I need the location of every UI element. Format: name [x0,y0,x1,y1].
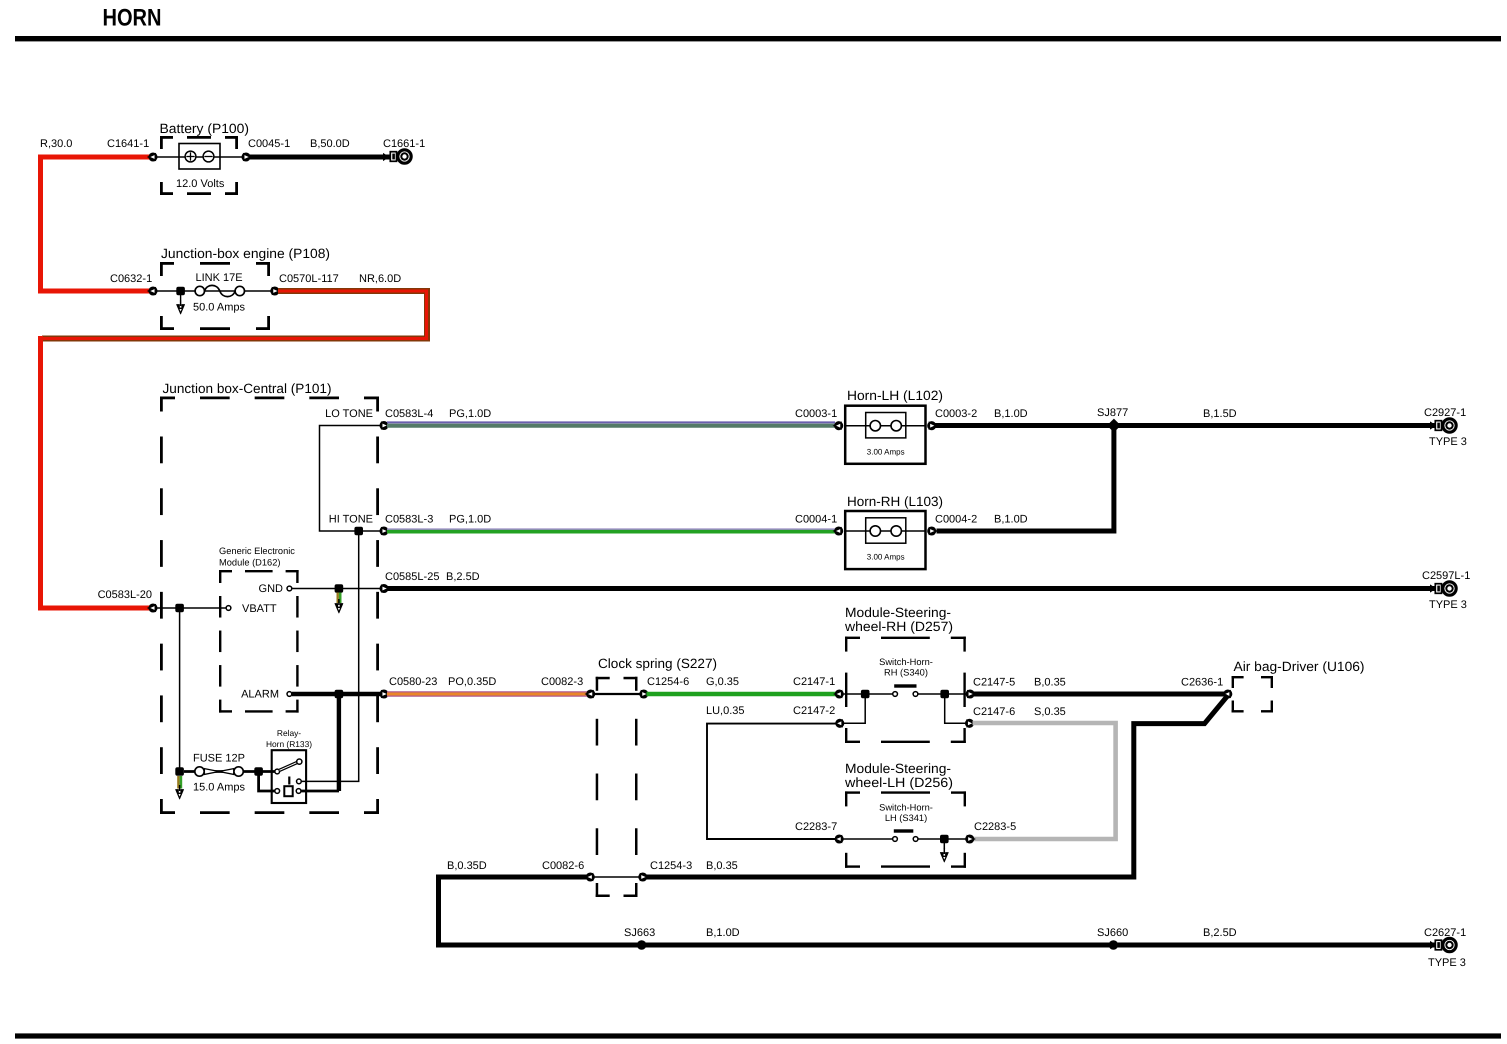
junction box-Central P101 dashed box [160,397,379,815]
svg-text:GND: GND [259,583,284,595]
battery P100 symbol [179,144,220,170]
connector C0632-1 [149,288,157,295]
svg-text:B,2.5D: B,2.5D [446,571,480,583]
junction dot VBATT [175,604,184,613]
connector C2283-5 [966,836,974,843]
splice SJ660 [1109,940,1119,950]
connector C2147-1 [835,691,843,698]
wire air bag return diagonal [1133,696,1228,878]
clock spring internal wire top [593,693,641,695]
junction box engine P108 dashed box [160,262,270,330]
svg-text:C0003-2: C0003-2 [935,408,977,420]
junction dot fuse feed [175,767,184,776]
connector C0583L-3 [381,528,389,535]
horn-LH L102 box [845,406,925,464]
wire S,0.35 grey [973,723,1116,839]
air bag-Driver U106 dashed box [1232,676,1273,713]
ALARM pin and wire [292,692,384,696]
connector C0583L-4 [381,422,389,429]
svg-text:C2597L-1: C2597L-1 [1422,570,1470,582]
connector C0583L-20 [149,605,157,612]
switch-horn-RH S340 symbol [893,684,918,696]
svg-text:C0045-1: C0045-1 [248,138,290,150]
svg-text:PG,1.0D: PG,1.0D [449,408,491,420]
svg-text:C2636-1: C2636-1 [1181,677,1223,689]
svg-text:Battery (P100): Battery (P100) [160,121,250,136]
svg-text:Relay-: Relay- [277,728,301,738]
D257 internal wires [842,693,893,695]
svg-text:C2147-6: C2147-6 [973,706,1015,718]
svg-text:R,30.0: R,30.0 [40,138,72,150]
svg-text:C0583L-20: C0583L-20 [98,589,152,601]
svg-text:Horn-LH (L102): Horn-LH (L102) [847,388,943,403]
svg-text:B,1.5D: B,1.5D [1203,408,1237,420]
svg-text:G,0.35: G,0.35 [706,676,739,688]
svg-text:B,0.35: B,0.35 [1034,677,1066,689]
svg-text:C0580-23: C0580-23 [389,676,437,688]
svg-text:C0585L-25: C0585L-25 [385,571,439,583]
horn-RH L103 box [845,511,925,569]
svg-text:C0570L-117: C0570L-117 [279,273,339,285]
junction dot HI TONE relay feed [354,527,363,536]
internal wire ALARM to relay coil [337,694,341,791]
module-steering-wheel-RH D257 dashed box [845,637,966,743]
connector C2147-6 [966,720,974,727]
connector C2283-7 [835,836,843,843]
connector C2636-1 [1223,691,1231,698]
junction dot ALARM [335,690,344,699]
D256 internal wires [842,838,893,840]
svg-text:C0082-3: C0082-3 [541,676,583,688]
junction dot GND [335,584,344,593]
svg-text:SJ663: SJ663 [624,927,655,939]
svg-text:Clock spring (S227): Clock spring (S227) [598,656,717,671]
svg-text:C1641-1: C1641-1 [107,138,149,150]
wire B,0.35 to air bag [973,692,1228,697]
svg-text:12.0 Volts: 12.0 Volts [176,178,225,190]
connector C0004-2 [928,528,936,535]
svg-text:wheel-LH (D256): wheel-LH (D256) [844,775,953,790]
svg-text:Module-Steering-: Module-Steering- [845,761,951,776]
junction dot relay feed [254,767,263,776]
FUSE 12P symbol [184,767,258,776]
connector C0003-2 [928,422,936,429]
ground stub D256 [943,843,945,849]
ring terminal C2627-1 TYPE 3 [1435,938,1456,951]
svg-text:C1254-6: C1254-6 [647,676,689,688]
wire PG,1.0D HI TONE purple/green [387,528,835,530]
svg-text:Switch-Horn-: Switch-Horn- [879,657,933,667]
clock spring internal wire bottom [593,876,641,878]
wire LU,0.35 [707,724,837,839]
svg-text:C0004-1: C0004-1 [795,514,837,526]
svg-text:C0004-2: C0004-2 [935,514,977,526]
svg-text:50.0 Amps: 50.0 Amps [193,302,245,314]
svg-text:B,1.0D: B,1.0D [994,514,1028,526]
svg-text:B,1.0D: B,1.0D [994,408,1028,420]
internal wire VBATT to fuse [179,608,181,772]
svg-text:B,1.0D: B,1.0D [706,927,740,939]
junction dot P108 [176,287,185,296]
svg-text:Module (D162): Module (D162) [219,558,281,568]
wire PG,1.0D LO TONE purple/green [387,421,835,423]
svg-text:C2283-7: C2283-7 [795,821,837,833]
svg-text:B,2.5D: B,2.5D [1203,927,1237,939]
svg-text:C0082-6: C0082-6 [542,860,584,872]
junction dots D257 [861,690,870,699]
ring terminal C2927-1 TYPE 3 [1435,419,1456,432]
clock spring S227 dashed box [596,677,638,897]
connector C0082-3 [586,691,594,698]
svg-text:3.00 Amps: 3.00 Amps [867,447,905,456]
svg-text:C1254-3: C1254-3 [650,860,692,872]
P101 internal wire LO TONE [320,426,385,532]
svg-text:HI TONE: HI TONE [329,514,373,526]
connector C0004-1 [834,528,842,535]
P108 internal wire [156,290,274,292]
svg-text:C0003-1: C0003-1 [795,408,837,420]
connector C0003-1 [834,422,842,429]
svg-text:C1661-1: C1661-1 [383,138,425,150]
svg-text:C2147-5: C2147-5 [973,677,1015,689]
relay internal switch [259,759,302,774]
connector C2147-5 [967,691,975,698]
connector C0570L-117 [272,288,280,295]
battery box P100 dashed [160,136,238,195]
connector C0585L-25 [381,585,389,592]
svg-text:C2927-1: C2927-1 [1424,407,1466,419]
relay coil [259,772,339,797]
svg-text:Junction-box engine (P108): Junction-box engine (P108) [161,246,330,261]
P108 labels [110,272,401,314]
fuse ground stub [178,776,181,789]
svg-text:C2147-1: C2147-1 [793,676,835,688]
wire B,0.35D lower rail [439,877,592,945]
svg-text:C2283-5: C2283-5 [974,821,1016,833]
svg-text:TYPE 3: TYPE 3 [1428,957,1466,969]
svg-text:C2147-2: C2147-2 [793,705,835,717]
wire B ground bottom rail [436,943,1437,948]
svg-text:C0583L-3: C0583L-3 [385,514,433,526]
ring terminal C2597L-1 TYPE 3 [1435,582,1456,595]
svg-text:SJ877: SJ877 [1097,407,1128,419]
svg-text:Generic Electronic: Generic Electronic [219,546,295,556]
svg-text:PO,0.35D: PO,0.35D [448,676,496,688]
svg-text:LU,0.35: LU,0.35 [706,705,745,717]
GND pin and wire [292,588,384,590]
wire red vertical to junction box central [41,336,151,608]
svg-text:B,50.0D: B,50.0D [310,138,350,150]
top rule bar [15,36,1501,41]
wire G,0.35 green [647,692,837,697]
wire B,2.5D ground rail [387,586,1437,591]
ground stub wire [338,593,341,604]
connector C0082-6 [586,874,594,881]
switch-horn-LH S341 symbol [893,829,918,841]
svg-text:B,0.35D: B,0.35D [447,860,487,872]
svg-text:Horn-RH (L103): Horn-RH (L103) [847,494,943,509]
wire PO,0.35D pink/orange [387,691,588,696]
svg-text:Horn (R133): Horn (R133) [266,739,312,749]
svg-text:Air bag-Driver (U106): Air bag-Driver (U106) [1234,659,1365,674]
splice SJ663 [637,940,647,950]
svg-text:NR,6.0D: NR,6.0D [359,273,401,285]
svg-text:Module-Steering-: Module-Steering- [845,605,951,620]
bottom rule bar [15,1033,1501,1038]
svg-text:C0632-1: C0632-1 [110,273,152,285]
battery internal wire [153,156,246,158]
svg-text:TYPE 3: TYPE 3 [1429,599,1467,611]
svg-text:C2627-1: C2627-1 [1424,927,1466,939]
wire B,50.0D [249,155,390,160]
svg-text:Junction box-Central (P101): Junction box-Central (P101) [163,381,332,396]
svg-text:PG,1.0D: PG,1.0D [449,514,491,526]
svg-text:LO TONE: LO TONE [325,408,373,420]
svg-text:B,0.35: B,0.35 [706,860,738,872]
svg-text:SJ660: SJ660 [1097,927,1128,939]
junction dot D256 [940,835,949,844]
connector C1254-6 [641,691,649,698]
connector C2147-2 [835,720,843,727]
connector C1254-3 [640,874,648,881]
generic electronic module D162 dashed box [219,570,299,713]
wire B,1.0D horn LH [935,423,1114,428]
svg-text:HORN: HORN [103,5,162,32]
wire NR,6.0D brown/red [42,291,427,339]
svg-text:ALARM: ALARM [241,689,279,701]
svg-text:3.00 Amps: 3.00 Amps [867,553,905,562]
battery labels [40,121,425,190]
relay switch output pin [297,779,302,784]
internal wire relay to HI TONE [301,531,359,781]
svg-text:15.0 Amps: 15.0 Amps [193,782,245,794]
module-steering-wheel-LH D256 dashed box [845,791,966,867]
wire R,30.0 red battery feed [41,157,151,291]
arrow to other circuits P108 [180,295,182,300]
svg-text:Switch-Horn-: Switch-Horn- [879,803,933,813]
svg-text:RH (S340): RH (S340) [884,668,928,678]
connector C1641-1 [149,154,157,161]
svg-text:C0583L-4: C0583L-4 [385,408,433,420]
wire B,1.0D horn RH riser [937,423,1114,531]
svg-text:S,0.35: S,0.35 [1034,706,1066,718]
svg-text:LINK 17E: LINK 17E [196,272,243,284]
ring terminal C1661-1 ground [390,150,411,163]
svg-text:VBATT: VBATT [242,603,277,615]
svg-text:wheel-RH (D257): wheel-RH (D257) [844,619,953,634]
fusible link LINK 17E symbol [195,285,244,296]
svg-text:LH (S341): LH (S341) [885,813,927,823]
VBATT pin and wire [153,607,226,609]
connector C0045-1 [243,154,251,161]
wire B,1.5D to ground [1114,423,1437,428]
svg-text:FUSE 12P: FUSE 12P [193,753,245,765]
svg-text:TYPE 3: TYPE 3 [1429,436,1467,448]
relay-Horn R133 box [272,750,306,803]
connector C0580-23 [381,691,389,698]
